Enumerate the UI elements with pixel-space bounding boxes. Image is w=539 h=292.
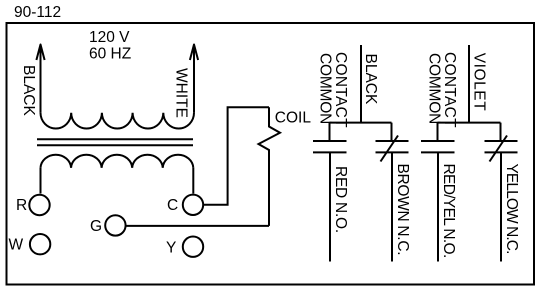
svg-text:RED/YEL N.O.: RED/YEL N.O.: [440, 164, 457, 258]
contact group 2 common wire: [438, 45, 501, 141]
wire below N.C. contact group 2: [500, 152, 502, 261]
svg-text:BLACK: BLACK: [362, 54, 379, 105]
contact N.O. group 2 upper plate: [421, 140, 455, 142]
terminal C: [183, 195, 203, 215]
svg-text:VIOLET: VIOLET: [470, 53, 487, 111]
terminal W: [30, 234, 50, 254]
svg-text:G: G: [90, 218, 102, 235]
contact N.O. group 2 lower plate: [421, 151, 455, 153]
svg-text:C: C: [167, 197, 178, 214]
svg-text:WHITE: WHITE: [173, 68, 190, 118]
arrowhead white lead: [190, 45, 198, 61]
wire terminal G to coil bottom: [126, 225, 269, 227]
transformer T1 core line 2: [37, 144, 193, 146]
svg-text:W: W: [9, 237, 24, 254]
svg-text:60 HZ: 60 HZ: [89, 46, 131, 63]
wire secondary left end to terminal R: [40, 168, 42, 194]
terminal G: [105, 215, 125, 235]
transformer T1 core line 1: [37, 138, 193, 140]
svg-text:120 V: 120 V: [89, 29, 130, 46]
wire below N.O. contact group 1: [329, 152, 331, 261]
terminal R: [29, 195, 49, 215]
N.C. slash group 2: [490, 136, 508, 162]
contact N.C. group 2 upper plate: [485, 140, 518, 142]
svg-text:Y: Y: [166, 240, 176, 257]
svg-text:RED N.O.: RED N.O.: [332, 166, 349, 233]
svg-text:CONTACT: CONTACT: [441, 52, 458, 128]
transformer T1 primary winding: [41, 113, 195, 129]
wire below N.O. contact group 2: [437, 152, 439, 261]
svg-text:YELLOW N.C.: YELLOW N.C.: [503, 164, 520, 254]
svg-text:BLACK: BLACK: [20, 65, 37, 116]
svg-text:CONTACT: CONTACT: [332, 52, 349, 128]
svg-text:90-112: 90-112: [14, 4, 61, 21]
wire secondary right end to terminal C: [192, 168, 194, 194]
arrowhead black lead: [36, 45, 44, 61]
svg-text:COIL: COIL: [275, 109, 312, 126]
contact N.O. group 1 upper plate: [313, 140, 347, 142]
svg-text:COMMON: COMMON: [425, 53, 442, 124]
contact N.O. group 1 lower plate: [313, 151, 347, 153]
transformer T1 primary lead WHITE: wire: [193, 45, 195, 113]
svg-text:BROWN N.C.: BROWN N.C.: [394, 164, 411, 256]
contact N.C. group 1 upper plate: [376, 140, 409, 142]
transformer T1 primary lead BLACK: wire: [40, 45, 42, 113]
transformer T1 secondary winding: [41, 155, 194, 168]
svg-text:COMMON: COMMON: [316, 53, 333, 124]
terminal Y: [183, 237, 203, 257]
contact N.C. group 1 lower plate: [376, 151, 409, 153]
contact N.C. group 2 lower plate: [485, 151, 518, 153]
contact group 1 common wire: [330, 45, 392, 141]
svg-text:R: R: [16, 197, 27, 214]
wire below N.C. contact group 1: [391, 152, 393, 261]
wire terminal C to coil top: [204, 107, 269, 205]
N.C. slash group 1: [381, 136, 399, 162]
coil (zigzag element): [259, 107, 281, 226]
